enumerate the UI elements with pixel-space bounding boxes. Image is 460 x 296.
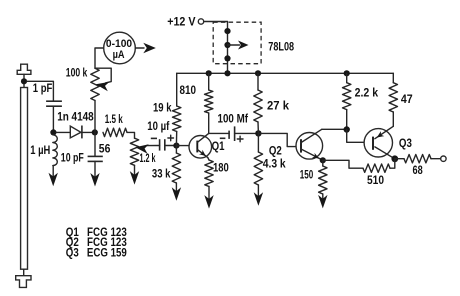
transistor Q2 <box>296 129 323 160</box>
label parts list Q1 <box>66 225 127 239</box>
wire pot R1 to meter <box>95 48 104 68</box>
potentiometer R1 100k <box>91 68 99 100</box>
wire node E to Q3 base <box>347 130 373 143</box>
wire Q2 collector to node E <box>322 128 347 130</box>
label Q3 <box>399 138 412 150</box>
svg-text:56: 56 <box>99 144 111 156</box>
ground below R6 <box>204 187 213 209</box>
svg-text:Q3: Q3 <box>399 138 412 150</box>
label plus sign C3 <box>168 135 174 141</box>
wire rod to bottom cap <box>23 269 25 276</box>
svg-text:µA: µA <box>113 49 125 61</box>
svg-text:68: 68 <box>413 165 424 177</box>
resistor R7 810 <box>205 90 213 113</box>
pin node regulator input <box>224 28 230 34</box>
svg-text:150: 150 <box>300 170 314 182</box>
resistor R13 510 <box>363 164 390 172</box>
wire node F to R14 68 <box>395 158 404 160</box>
svg-text:33 k: 33 k <box>152 169 171 181</box>
label 100 k <box>66 68 88 80</box>
resistor R8 27 k <box>254 90 262 122</box>
node rail/R11 2.2k <box>344 70 350 76</box>
pin node regulator output <box>224 42 230 48</box>
node antenna feed <box>21 78 27 84</box>
wire C1 to node B1 <box>52 106 54 132</box>
label 810 <box>180 85 197 97</box>
antenna probe bottom cap <box>16 276 31 288</box>
svg-text:1n 4148: 1n 4148 <box>57 112 94 124</box>
resistor R9 4.3 k <box>254 152 262 185</box>
label minus sign C3 <box>151 137 157 139</box>
wire R7 to Q1 collector junction <box>208 113 210 133</box>
capacitor C3 10 uF <box>160 139 165 150</box>
resistor R12 47 <box>389 83 397 112</box>
resistor R6 180 <box>205 160 213 187</box>
ground below R3 <box>130 165 139 184</box>
label 1.5 k <box>105 114 123 126</box>
wire rail corner to R12 47 <box>392 73 394 82</box>
label 68 <box>413 165 424 177</box>
transistor Q3 <box>364 126 395 159</box>
wire R11 to node E <box>346 110 348 130</box>
svg-text:100 k: 100 k <box>66 68 88 80</box>
wire node C to Q1 base <box>176 145 197 147</box>
wire C3 to node C (Q1 base) <box>165 145 177 147</box>
node rail/R8 27k <box>255 70 261 76</box>
wire collector junction to C4 <box>209 132 229 134</box>
resistor R14 68 <box>404 155 431 163</box>
ground below R5 <box>172 183 181 201</box>
svg-text:47: 47 <box>401 94 413 106</box>
label parts list Q3 <box>66 246 127 260</box>
wire C4 to node D <box>235 132 259 134</box>
svg-text:Q1: Q1 <box>212 141 225 153</box>
wire antenna node to C1 <box>27 81 53 101</box>
wire Q2 emitter to R13 510 <box>323 160 363 168</box>
meter M1 0-100 uA <box>104 32 136 64</box>
wire antenna-top to rod <box>23 74 25 87</box>
label 78L08 <box>268 42 294 54</box>
wire node B2 up to pot R1 <box>94 101 96 133</box>
capacitor C2 10 pF / 56 <box>88 156 103 161</box>
label parts list Q2 <box>66 235 127 249</box>
label 1 pF <box>33 83 53 95</box>
label 4.3 k <box>263 159 287 171</box>
label 1 uH <box>30 145 50 157</box>
label 1.2 k <box>140 153 156 165</box>
resistor R10 150 <box>319 166 327 194</box>
label 100 Mf <box>218 114 249 126</box>
regulator output arrow <box>228 41 249 50</box>
label 47 <box>401 94 413 106</box>
svg-text:1 µH: 1 µH <box>30 145 50 157</box>
node Q2 emitter <box>320 157 326 163</box>
svg-text:Q3 ECG 159: Q3 ECG 159 <box>66 246 127 260</box>
wire R4 to node C <box>175 132 177 146</box>
capacitor C4 100 Mf <box>229 126 235 141</box>
node rail/R7 810 <box>206 70 212 76</box>
svg-text:510: 510 <box>367 175 384 187</box>
svg-text:100 Mf: 100 Mf <box>218 114 249 126</box>
svg-text:1.2 k: 1.2 k <box>140 153 156 165</box>
node C (Q1 base junction) <box>173 143 179 149</box>
potentiometer R3 1.2 k <box>130 138 138 165</box>
label 150 <box>300 170 314 182</box>
svg-text:+12 V: +12 V <box>167 16 196 28</box>
label 2.2 k <box>355 87 379 99</box>
meter output arrow <box>135 43 155 53</box>
wire R14 to output terminal <box>431 158 441 160</box>
wire diode cathode to node B2 <box>82 131 95 133</box>
node B1 (diode anode junction) <box>50 129 56 135</box>
label 1n 4148 <box>57 112 94 124</box>
label Q2 <box>269 145 282 157</box>
label +12 V <box>167 16 196 28</box>
ground below C2 <box>90 161 99 186</box>
wire Q1 emitter to R6 <box>208 158 209 160</box>
svg-text:810: 810 <box>180 85 197 97</box>
wire Q2 emitter to R10 150 <box>322 160 324 166</box>
svg-text:10 pF: 10 pF <box>61 153 84 165</box>
svg-text:1.5 k: 1.5 k <box>105 114 123 126</box>
resistor R5 33 k <box>172 153 180 183</box>
capacitor C1 1 pF <box>46 101 62 106</box>
ground below R9 <box>254 185 263 206</box>
diode D1 1n 4148 <box>70 126 82 139</box>
svg-text:1 pF: 1 pF <box>33 83 53 95</box>
label 33 k <box>152 169 171 181</box>
antenna probe top cap <box>17 64 31 74</box>
wire node B2 down to C2 <box>94 132 96 156</box>
wire rail to R11 <box>346 73 348 82</box>
wire node D to R9 4.3k <box>257 133 259 152</box>
supply rail <box>177 72 394 74</box>
wire R2 to pot R3 <box>127 132 135 138</box>
label 10 pF <box>61 153 84 165</box>
output terminal <box>441 156 446 161</box>
wire rail to R8 <box>257 73 259 90</box>
inductor L1 1uH <box>53 135 58 166</box>
label minus sign C4 <box>220 137 226 139</box>
label plus sign C4 <box>237 136 243 142</box>
regulator U1 78L08 dashed box <box>213 22 261 64</box>
wire R8 to node D <box>257 122 259 133</box>
svg-text:27 k: 27 k <box>267 101 290 113</box>
svg-text:19 k: 19 k <box>153 103 172 115</box>
label 510 <box>367 175 384 187</box>
wire R12 to Q3 emitter <box>392 112 394 126</box>
wire node D to Q2 base <box>258 133 301 146</box>
node F (Q3 collector / output) <box>391 155 398 162</box>
label 19 k <box>153 103 172 115</box>
antenna probe rod <box>21 88 28 270</box>
svg-text:78L08: 78L08 <box>268 42 294 54</box>
label Q1 <box>212 141 225 153</box>
wiper of R1 (rheostat tie) <box>95 68 111 91</box>
node rail/regulator <box>224 70 230 76</box>
ground below R10 <box>318 194 327 208</box>
wire node C to R5 33k <box>175 146 177 153</box>
label 180 <box>213 163 229 175</box>
wire R13 to node F <box>390 159 395 168</box>
transistor Q1 <box>189 133 212 158</box>
wire rail corner to R4 19k <box>176 73 178 106</box>
node E (Q3 base junction) <box>344 126 350 132</box>
+12V terminal <box>198 19 203 24</box>
svg-text:Q2: Q2 <box>269 145 282 157</box>
label 56 <box>99 144 111 156</box>
node B2 (detector output) <box>92 129 98 135</box>
label 10 uf <box>147 121 169 133</box>
svg-text:180: 180 <box>213 163 229 175</box>
wire node B1 to diode <box>56 131 70 133</box>
resistor R4 19 k <box>173 106 181 132</box>
resistor R2 1.5 k <box>103 128 127 136</box>
wiper arrow of R3 <box>135 144 159 153</box>
node D (Q2 base junction) <box>255 130 261 136</box>
ground below L1 <box>49 166 58 187</box>
svg-text:10 µf: 10 µf <box>147 121 169 133</box>
wire rail to R7 <box>208 73 210 90</box>
resistor R11 2.2 k <box>343 83 351 110</box>
pin node regulator ground <box>224 55 230 61</box>
wire +12V to regulator <box>204 22 228 74</box>
svg-text:4.3 k: 4.3 k <box>263 159 287 171</box>
label 27 k <box>267 101 290 113</box>
svg-text:2.2 k: 2.2 k <box>355 87 379 99</box>
